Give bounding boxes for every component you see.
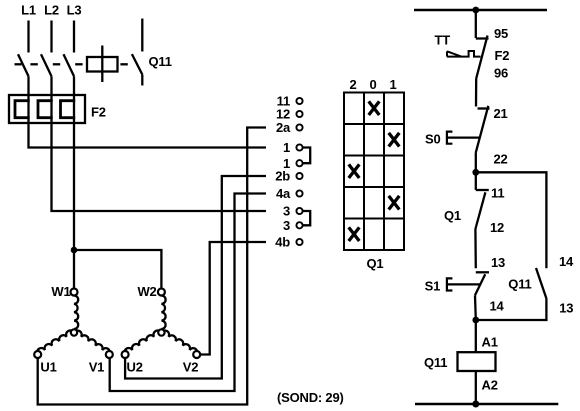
- svg-text:3: 3: [283, 204, 290, 219]
- node L3: [67, 3, 82, 18]
- svg-text:Q11: Q11: [508, 277, 531, 292]
- contactor Q11 operator box: [87, 46, 118, 83]
- svg-text:F2: F2: [91, 105, 106, 120]
- svg-text:3: 3: [283, 218, 290, 233]
- winding W2 (vertical coil): [137, 284, 165, 329]
- svg-text:S0: S0: [425, 131, 441, 146]
- contact Q1 11-12 (NO): [444, 172, 504, 235]
- svg-text:11: 11: [491, 186, 504, 201]
- wire U2 to terminal 2b: [125, 176, 266, 379]
- svg-text:(SOND: 29): (SOND: 29): [277, 390, 344, 405]
- switch Q1 position table: [344, 93, 404, 251]
- terminal 2b: [275, 169, 302, 184]
- wire V1 to terminal 4a: [110, 194, 266, 392]
- winding W1 (vertical coil): [51, 284, 78, 329]
- wire N-rail (bottom): [415, 403, 558, 406]
- winding V1 (right coil): [74, 331, 110, 355]
- junction self-hold branch: [472, 169, 479, 176]
- terminal 4b: [275, 235, 302, 250]
- terminal 1: [283, 140, 303, 155]
- contact Q11 aux 13-14 (NO, self-hold): [476, 254, 574, 320]
- winding U1 (left coil): [37, 330, 74, 354]
- junction bottom rail: [472, 401, 479, 408]
- svg-text:96: 96: [494, 66, 508, 81]
- wire branch to Q11 aux: [476, 172, 547, 268]
- svg-text:2: 2: [349, 77, 356, 92]
- table X mark row 1: [369, 101, 380, 115]
- contact F2 95-96 (NC, thermal): [476, 26, 509, 81]
- wire Q1 to S1: [474, 229, 477, 268]
- svg-text:4b: 4b: [275, 235, 290, 250]
- wire L1 to terminal 1: [29, 123, 267, 148]
- svg-text:F2: F2: [495, 48, 510, 63]
- node L1: [21, 3, 36, 18]
- svg-text:12: 12: [490, 220, 504, 235]
- svg-text:L1: L1: [21, 3, 36, 18]
- winding V2 (right coil): [161, 331, 197, 355]
- wire pole 3 to F2: [73, 76, 75, 95]
- terminal W1: [71, 289, 78, 296]
- terminal U2: [122, 351, 143, 375]
- wire pole 1 to F2: [27, 76, 29, 95]
- svg-text:L3: L3: [67, 3, 82, 18]
- wire S0 to junction: [475, 153, 477, 173]
- terminal 1: [283, 156, 303, 171]
- svg-text:2a: 2a: [276, 120, 291, 135]
- junction W branch: [71, 247, 78, 254]
- terminal 12: [276, 107, 303, 122]
- wire L3 to motor W1: [73, 123, 75, 289]
- svg-text:Q11: Q11: [424, 355, 447, 370]
- svg-text:Q1: Q1: [367, 256, 384, 271]
- contact Q11 (main diagram): [132, 19, 172, 86]
- wire L1 lead: [27, 21, 29, 53]
- svg-text:95: 95: [494, 26, 508, 41]
- svg-text:V2: V2: [183, 360, 199, 375]
- contact S1 13-14 (NO pushbutton): [425, 272, 505, 320]
- wire L2 to terminal 3: [52, 123, 267, 211]
- thermal actuator TT: [435, 33, 481, 57]
- svg-text:1: 1: [389, 77, 396, 92]
- terminal 3: [283, 204, 303, 219]
- svg-text:U1: U1: [40, 360, 56, 375]
- wire L2 lead: [50, 21, 52, 53]
- wire mechanical link (dashed): [15, 63, 128, 65]
- terminal V2: [183, 351, 200, 375]
- terminal 11: [277, 94, 303, 109]
- wire V2 to terminal 4b: [200, 242, 266, 355]
- svg-text:Q11: Q11: [149, 54, 172, 69]
- winding U2 (left coil): [124, 330, 161, 354]
- svg-text:13: 13: [491, 255, 505, 270]
- terminal 4a: [276, 186, 303, 201]
- contact Q11 main pole 1: [18, 54, 29, 76]
- svg-text:0: 0: [369, 77, 376, 92]
- star point node: [71, 329, 77, 335]
- wire link terminals 3-3: [303, 211, 311, 225]
- junction coil top: [472, 317, 479, 324]
- wire branch to W2: [74, 250, 161, 289]
- svg-text:TT: TT: [435, 33, 451, 48]
- wire L-rail (top): [414, 9, 547, 12]
- wire U1 to terminal 2a: [38, 128, 266, 405]
- svg-text:22: 22: [494, 151, 508, 166]
- terminal 3: [283, 218, 303, 233]
- contact Q11 main pole 2: [41, 54, 52, 76]
- svg-text:2b: 2b: [275, 169, 290, 184]
- terminal 2a: [276, 120, 303, 135]
- table headers 2 0 1: [349, 77, 396, 92]
- coil Q11: [424, 320, 498, 404]
- svg-text:1: 1: [283, 140, 290, 155]
- junction top rail: [472, 7, 479, 14]
- svg-text:13: 13: [559, 300, 573, 315]
- svg-text:W2: W2: [137, 284, 156, 299]
- svg-text:14: 14: [490, 299, 505, 314]
- terminal W2: [158, 289, 165, 296]
- wire pole 2 to F2: [50, 76, 52, 95]
- table X mark row 5: [349, 227, 360, 241]
- svg-text:21: 21: [494, 106, 508, 121]
- overload relay F2: [9, 95, 106, 123]
- svg-text:14: 14: [559, 254, 574, 269]
- wire L3 lead: [73, 21, 75, 53]
- terminal V1: [89, 351, 113, 375]
- svg-text:S1: S1: [425, 279, 441, 294]
- wire rail to F2 contact: [475, 10, 477, 38]
- contact S0 21-22 (NC pushbutton): [425, 106, 508, 167]
- wire link terminals 1-1: [303, 148, 311, 164]
- svg-text:Q1: Q1: [444, 208, 461, 223]
- table X mark row 4: [389, 196, 400, 210]
- svg-text:U2: U2: [127, 360, 143, 375]
- table X mark row 3: [349, 164, 360, 178]
- wire F2 to S0: [475, 79, 478, 107]
- svg-text:4a: 4a: [276, 186, 291, 201]
- node L2: [44, 3, 59, 18]
- table X mark row 2: [389, 133, 400, 147]
- star point node: [158, 329, 164, 335]
- svg-text:V1: V1: [89, 360, 105, 375]
- contact Q11 main pole 3: [64, 54, 75, 76]
- svg-text:A1: A1: [482, 335, 498, 350]
- svg-text:A2: A2: [482, 377, 498, 392]
- svg-text:L2: L2: [44, 3, 59, 18]
- terminal U1: [34, 351, 56, 375]
- svg-text:W1: W1: [51, 284, 70, 299]
